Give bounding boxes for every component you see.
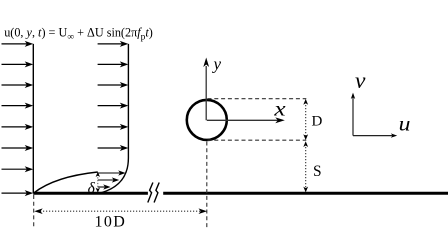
- 10D dimension line: [34, 208, 207, 214]
- cylinder: [187, 100, 227, 140]
- wall left segment: [33, 192, 148, 195]
- profile arrow 2: [98, 61, 129, 67]
- D dimension line: [303, 99, 308, 140]
- svg-text:10D: 10D: [95, 213, 127, 230]
- x-axis: [207, 117, 285, 123]
- inlet arrow 1: [2, 41, 34, 47]
- boundary layer arrow C: [98, 184, 111, 189]
- profile arrow 4: [98, 103, 129, 109]
- svg-text:D: D: [312, 113, 323, 129]
- dashed extension below cylinder: [206, 142, 208, 228]
- svg-text:u: u: [399, 111, 411, 135]
- profile arrow 6: [98, 145, 129, 151]
- second velocity profile line with boundary-layer hook: [101, 44, 128, 193]
- wall right segment: [163, 192, 448, 195]
- inlet arrow 2: [2, 61, 34, 67]
- S dimension line: [303, 141, 308, 192]
- dashed line at cylinder bottom: [208, 139, 307, 141]
- boundary layer growth curve: [34, 172, 98, 193]
- u-axis: [353, 133, 397, 137]
- dashed extension below inlet line: [33, 195, 35, 228]
- inlet arrow 3: [2, 82, 34, 88]
- inlet arrow 8 (at wall): [2, 190, 34, 196]
- inlet arrow 6: [2, 145, 34, 151]
- delta dimension line: [96, 172, 100, 193]
- svg-text:x: x: [273, 96, 286, 120]
- boundary layer arrow A: [98, 170, 126, 175]
- inlet arrow 7: [2, 166, 34, 172]
- dashed line at cylinder top: [208, 98, 307, 100]
- svg-text:v: v: [355, 68, 366, 94]
- break mark 2: [154, 183, 159, 203]
- svg-text:y: y: [212, 54, 222, 73]
- break mark 1: [148, 183, 153, 203]
- svg-text:S: S: [313, 163, 322, 180]
- inlet arrow 4: [2, 103, 34, 109]
- profile arrow 1: [98, 41, 129, 47]
- inlet profile vertical line: [32, 44, 34, 193]
- profile arrow 5: [98, 124, 129, 130]
- boundary layer arrow B: [98, 177, 119, 182]
- inlet arrow 5: [2, 124, 34, 130]
- profile arrow 3: [98, 82, 129, 88]
- y-axis: [203, 58, 209, 121]
- v-axis: [351, 93, 355, 136]
